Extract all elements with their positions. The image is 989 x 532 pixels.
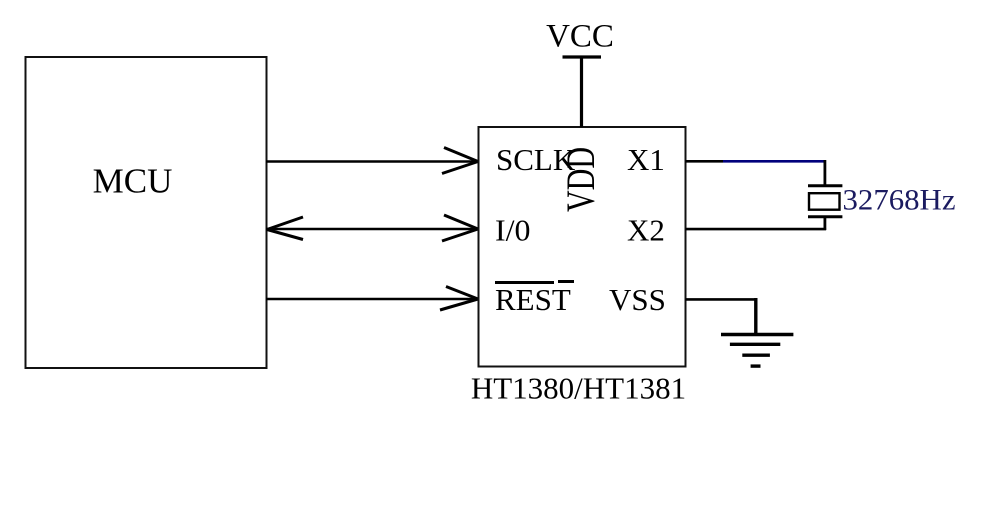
svg-text:X2: X2	[627, 213, 665, 248]
crystal Y1 body	[809, 193, 840, 210]
svg-text:REST: REST	[495, 282, 571, 317]
IC U1 HT1380/HT1381 box	[479, 127, 686, 367]
svg-text:VDD: VDD	[558, 147, 603, 212]
wire REST (MCU to REST pin)	[266, 298, 477, 301]
crystal Y1 top plate	[808, 184, 842, 187]
wire X1 to crystal (black part)	[686, 160, 724, 163]
svg-text:MCU: MCU	[93, 162, 173, 201]
wire crystal top drop	[824, 160, 827, 185]
wire ground drop	[754, 298, 757, 335]
wire SCLK (MCU to SCLK pin)	[266, 160, 477, 163]
ground	[721, 335, 793, 367]
svg-text:I/0: I/0	[495, 213, 531, 248]
arrowhead right at I/0	[442, 215, 478, 241]
wire X1 to crystal (blue part)	[723, 160, 826, 163]
arrowhead right at SCLK	[442, 148, 478, 174]
MCU box U2	[26, 57, 267, 368]
wire I/0 (bidirectional MCU to I/0 pin)	[266, 228, 477, 231]
svg-text:X1: X1	[627, 142, 665, 177]
svg-text:VSS: VSS	[609, 282, 666, 317]
arrowhead left at MCU	[267, 217, 303, 240]
wire VSS to ground	[686, 298, 758, 301]
wire X2 to crystal	[686, 228, 827, 231]
overline of REST (long segment)	[495, 281, 554, 284]
overline of REST (short segment over T)	[558, 280, 574, 283]
svg-text:32768Hz: 32768Hz	[843, 184, 956, 217]
crystal Y1 bottom plate	[808, 215, 842, 218]
arrowhead right at REST	[440, 287, 478, 311]
svg-text:VCC: VCC	[546, 19, 614, 55]
wire crystal bottom drop	[824, 218, 827, 231]
wire VCC to VDD pin	[580, 56, 583, 127]
svg-text:HT1380/HT1381: HT1380/HT1381	[471, 371, 686, 406]
power VCC symbol bar	[563, 55, 602, 58]
